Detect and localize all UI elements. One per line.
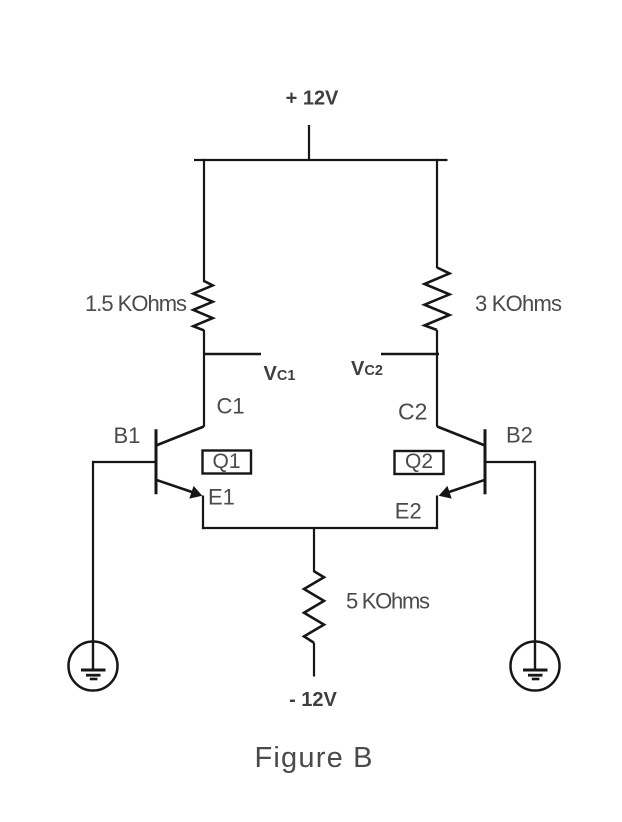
transistor Q1 — [156, 427, 204, 499]
svg-text:C1: C1 — [217, 394, 245, 419]
ground symbol right — [511, 642, 560, 691]
wire R2 to Q2 collector corner — [436, 330, 438, 427]
label Q2 box — [395, 450, 444, 474]
svg-text:E1: E1 — [208, 485, 235, 510]
svg-text:Figure B: Figure B — [255, 742, 373, 774]
wire R1 to Q1 collector corner — [203, 330, 205, 427]
resistor R2 3 KOhms — [425, 268, 450, 331]
wire Q1 base lead — [92, 461, 156, 463]
svg-text:+ 12V: + 12V — [286, 88, 339, 110]
transistor Q2 — [437, 427, 485, 499]
resistor R1 1.5 KOhms — [193, 281, 212, 330]
svg-text:E2: E2 — [395, 498, 422, 523]
wire left rail drop to R1 — [203, 159, 205, 282]
svg-text:C2: C2 — [398, 399, 427, 425]
wire emitter bus — [202, 527, 438, 529]
wire Q2 base lead — [485, 461, 535, 463]
svg-text:B1: B1 — [114, 423, 141, 448]
label Q1 box — [203, 450, 252, 474]
svg-text:1.5 KOhms: 1.5 KOhms — [85, 291, 187, 316]
wire Q2 emitter drop — [436, 496, 438, 530]
wire top rail — [194, 159, 448, 161]
svg-text:- 12V: - 12V — [289, 689, 337, 711]
wire B1 down to ground — [92, 461, 94, 642]
wire Q1 emitter drop — [202, 496, 204, 530]
resistor R3 5 KOhms — [304, 571, 324, 643]
wire +12V stub — [308, 125, 310, 161]
wire B2 down to ground — [534, 461, 536, 642]
svg-text:Q2: Q2 — [405, 450, 433, 473]
svg-text:Q1: Q1 — [212, 450, 240, 473]
svg-text:5 KOhms: 5 KOhms — [346, 589, 430, 614]
node Vc2 tap wire — [381, 353, 439, 355]
wire tail stub — [313, 528, 315, 572]
wire R3 to -12V — [313, 643, 315, 677]
svg-text:3 KOhms: 3 KOhms — [475, 291, 562, 316]
wire right rail drop to R2 — [436, 159, 438, 268]
node Vc1 tap wire — [203, 353, 261, 355]
svg-text:B2: B2 — [506, 423, 533, 448]
ground symbol left — [69, 642, 118, 691]
